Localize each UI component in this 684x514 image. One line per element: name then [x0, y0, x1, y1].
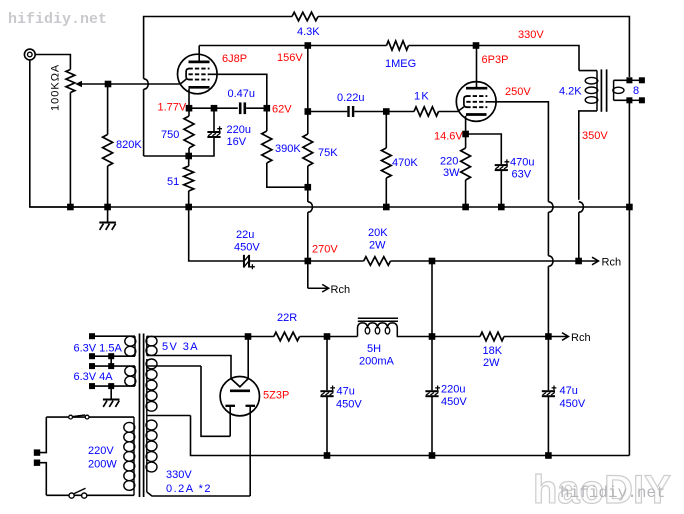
5Z3P filament lead left to 5V winding — [149, 356, 231, 379]
svg-text:100KΩA: 100KΩA — [50, 64, 62, 111]
wire to 0.22u — [308, 111, 348, 113]
wire 1K left — [386, 111, 414, 113]
svg-text:200mA: 200mA — [359, 356, 395, 368]
ground symbol heater — [103, 399, 120, 401]
5Z3P filament — [231, 379, 248, 387]
wire cathode to bypass cap — [466, 134, 502, 164]
wire jack sleeve to ground bus — [30, 60, 108, 207]
wire cathode row — [189, 107, 238, 109]
svg-text:330V: 330V — [166, 469, 192, 481]
junction 51-ground — [185, 204, 192, 211]
svg-text:5V 3A: 5V 3A — [162, 341, 199, 353]
junction 350V-OPT — [575, 258, 582, 265]
speaker terminal 8 bottom — [626, 97, 632, 103]
svg-text:hifidiy.net: hifidiy.net — [8, 11, 107, 28]
svg-text:hifidiy.net: hifidiy.net — [560, 484, 666, 502]
5Z3P filament lead right to B+ — [247, 337, 249, 379]
svg-text:470K: 470K — [392, 157, 418, 169]
svg-text:156V: 156V — [277, 52, 303, 64]
resistor 470K grid leak — [385, 112, 387, 149]
svg-text:1MEG: 1MEG — [385, 58, 416, 70]
speaker terminal 0 top — [626, 77, 632, 83]
svg-text:220: 220 — [440, 156, 458, 168]
svg-text:47u: 47u — [337, 386, 355, 398]
resistor 51 feedback leg — [188, 156, 190, 166]
PT winding 220V primary — [133, 417, 135, 495]
junction plate line — [305, 42, 312, 49]
terminal 6.3V1.5A bottom — [89, 353, 95, 359]
svg-text:450V: 450V — [336, 399, 362, 411]
svg-text:47u: 47u — [560, 385, 578, 397]
svg-text:220V: 220V — [88, 445, 114, 457]
junction 47u screen-ground — [545, 452, 552, 459]
junction heater tie 1 — [108, 353, 114, 359]
svg-text:470u: 470u — [510, 157, 534, 169]
svg-text:4.3K: 4.3K — [297, 26, 320, 38]
6J8P grid dashes top — [189, 68, 210, 70]
terminal 6.3V4A top — [89, 363, 95, 369]
svg-text:Rch: Rch — [571, 332, 591, 344]
power transformer core — [139, 334, 141, 498]
6J8P grid bracket — [186, 69, 189, 80]
svg-text:220u: 220u — [441, 384, 465, 396]
6P3P grid dashes bottom (control) — [466, 106, 487, 108]
resistor 4.3K feedback — [292, 12, 318, 21]
6J8P plate bar — [189, 60, 210, 63]
PT winding 330V HT — [146, 359, 148, 492]
junction 470K-ground — [383, 204, 390, 211]
junction 0.22u line — [305, 108, 312, 115]
svg-text:1K: 1K — [414, 91, 430, 103]
resistor 18K 2W screen dropper — [432, 336, 480, 338]
svg-text:16V: 16V — [227, 136, 247, 148]
svg-text:6.3V 1.5A: 6.3V 1.5A — [74, 343, 123, 355]
svg-text:200W: 200W — [88, 459, 117, 471]
wire 22u to 270V node — [250, 260, 308, 262]
svg-text:250V: 250V — [505, 86, 531, 98]
junction cathode network — [185, 153, 192, 160]
junction ground symbol stem — [104, 204, 111, 211]
wire 22u ground leg — [189, 207, 244, 261]
svg-text:390K: 390K — [275, 143, 301, 155]
terminal AC live — [34, 449, 40, 455]
svg-text:62V: 62V — [272, 104, 292, 116]
AC input wiring — [40, 417, 46, 453]
wire jack to volume pot top — [35, 55, 70, 70]
junction 62V node — [264, 105, 271, 112]
terminal 6.3V4A bottom — [89, 383, 95, 389]
svg-text:2W: 2W — [369, 240, 386, 252]
6P3P plate lead — [476, 46, 478, 89]
svg-text:8: 8 — [633, 85, 639, 97]
6P3P cathode lead — [465, 116, 467, 134]
wire 156V node down — [307, 46, 309, 112]
wire 350V rail to choke node — [431, 261, 433, 337]
svg-text:18K: 18K — [483, 345, 503, 357]
svg-text:22R: 22R — [277, 312, 297, 324]
capacitor 22u 450V decoupling — [243, 255, 245, 268]
wire pot wiper to grid — [82, 83, 180, 85]
junction 270V node — [305, 258, 312, 265]
wire 1K to 6P3P grid — [439, 107, 464, 112]
6P3P grid dashes middle (screen) — [466, 101, 487, 103]
svg-text:51: 51 — [167, 176, 179, 188]
ground symbol amp stage — [99, 222, 116, 224]
wire secondary bottom to ground — [628, 100, 630, 455]
junction secondary-ground-bus — [626, 204, 633, 211]
wire global feedback line — [143, 89, 145, 156]
tube 6J8P — [178, 54, 218, 94]
wire 75K to 270V node — [307, 187, 309, 202]
junction 220u branch — [211, 105, 218, 112]
5Z3P right anode — [246, 405, 256, 407]
6J8P plate lead — [198, 46, 200, 62]
junction rectifier output — [245, 333, 252, 340]
6J8P control grid entry — [180, 79, 186, 84]
capacitor 47u 450V screen filter — [547, 337, 549, 391]
wire 270V to Rch tap — [307, 261, 309, 288]
resistor 750 cathode — [188, 108, 190, 116]
wire 6J8P screen to 62V node — [209, 74, 267, 108]
svg-text:270V: 270V — [312, 244, 338, 256]
wire 0.22u to 1K — [354, 111, 386, 113]
capacitor 0.22u coupling — [347, 106, 349, 117]
6J8P cathode lead — [188, 89, 190, 109]
svg-text:3W: 3W — [443, 167, 460, 179]
resistor 820K grid leak — [107, 84, 109, 135]
svg-text:75K: 75K — [318, 147, 338, 159]
6P3P plate bar — [466, 87, 487, 90]
resistor 1K grid stopper — [414, 107, 439, 116]
wire 350V Rch tap — [579, 260, 599, 262]
junction 470K-1K — [383, 108, 390, 115]
svg-text:Rch: Rch — [331, 284, 351, 296]
junction cathode 14.6V — [462, 131, 469, 138]
PT winding 5V 3A — [146, 336, 148, 355]
junction heater tie 2 — [108, 363, 114, 369]
svg-text:4.2K: 4.2K — [559, 86, 582, 98]
resistor 220 3W cathode — [465, 134, 467, 148]
output transformer core — [600, 69, 602, 111]
6P3P grid bracket — [464, 96, 467, 107]
capacitor 0.47u coupling — [239, 102, 242, 114]
junction 6P3P plate lead — [473, 42, 480, 49]
wire heater tie — [110, 356, 112, 366]
capacitor 47u 450V first filter — [326, 337, 328, 391]
junction 47u-ground — [324, 452, 331, 459]
wire feedback to output terminal — [318, 17, 629, 78]
svg-text:6P3P: 6P3P — [482, 54, 509, 66]
resistor 390K screen dropper — [266, 108, 268, 131]
svg-text:350V: 350V — [582, 130, 608, 142]
svg-text:Rch: Rch — [602, 257, 622, 269]
resistor 20K 2W dropper — [308, 260, 364, 262]
svg-text:14.6V: 14.6V — [434, 131, 463, 143]
svg-text:0.22u: 0.22u — [337, 92, 365, 104]
svg-text:63V: 63V — [512, 169, 532, 181]
svg-text:6.3V 4A: 6.3V 4A — [74, 371, 114, 383]
switch mains bottom — [69, 493, 74, 498]
capacitor 470u 63V cathode bypass — [495, 164, 508, 166]
potentiometer 100K-A volume — [66, 70, 75, 93]
output transformer primary 4.2K — [579, 70, 597, 72]
tube 6P3P — [456, 82, 496, 122]
wire 22R node to choke — [327, 336, 357, 338]
svg-text:5H: 5H — [367, 343, 381, 355]
wire 250V Rch tap — [548, 336, 568, 338]
junction 350V rail left — [429, 258, 436, 265]
svg-text:450V: 450V — [560, 398, 586, 410]
wire 350V rail — [432, 260, 579, 262]
resistor 22R surge — [248, 336, 274, 338]
PT winding 6.3V 4A — [134, 366, 136, 386]
switch mains top — [69, 415, 73, 419]
svg-text:0.47u: 0.47u — [228, 88, 256, 100]
wire choke to 350V node — [397, 336, 432, 338]
svg-text:750: 750 — [161, 129, 179, 141]
svg-text:20K: 20K — [368, 227, 388, 239]
svg-text:330V: 330V — [518, 29, 544, 41]
svg-text:820K: 820K — [116, 139, 142, 151]
svg-text:6J8P: 6J8P — [222, 53, 247, 65]
svg-text:5Z3P: 5Z3P — [263, 390, 289, 402]
6J8P cathode bar — [189, 86, 210, 89]
terminal AC neutral — [34, 460, 40, 466]
svg-text:0.2A *2: 0.2A *2 — [166, 483, 212, 495]
capacitor 220u 450V second filter — [431, 337, 433, 391]
junction 470u-ground — [498, 204, 505, 211]
junction first filter node — [324, 333, 331, 340]
wire 0.47u to 62V node — [246, 107, 267, 109]
svg-text:220u: 220u — [227, 124, 251, 136]
svg-text:450V: 450V — [234, 242, 260, 254]
resistor 75K plate load — [307, 112, 309, 135]
6P3P cathode bar — [466, 113, 487, 116]
wire 1MEG to 6P3P plate — [409, 46, 580, 71]
5Z3P cathode bar — [230, 389, 250, 392]
junction heater ground — [108, 383, 114, 389]
5Z3P left anode — [225, 405, 235, 407]
upper ground bus — [30, 206, 630, 208]
capacitor 220u 16V cathode bypass — [213, 108, 215, 131]
PT winding 6.3V 1.5A — [134, 336, 136, 356]
wire pot bottom to ground bus — [69, 93, 71, 208]
wire 6P3P screen to 250V supply — [487, 102, 548, 202]
choke 5H 200mA — [358, 317, 398, 319]
junction grid-820K — [105, 81, 112, 88]
terminal 6.3V1.5A top — [89, 333, 95, 339]
wire HT top to left anode — [201, 366, 230, 436]
wire plate line 156V — [199, 45, 386, 47]
input jack J1 — [24, 49, 35, 60]
svg-text:2W: 2W — [483, 357, 500, 369]
wire feedback to cathode junction — [144, 155, 189, 157]
wire heater to ground — [110, 386, 112, 399]
junction choke output 350V — [429, 333, 436, 340]
junction 220-ground — [462, 204, 469, 211]
6J8P grid dashes middle (screen) — [189, 73, 210, 75]
junction cathode 1.77V — [186, 105, 193, 112]
junction 220u-ground — [429, 452, 436, 459]
resistor 1MEG plate-to-plate feedback — [387, 41, 409, 50]
svg-text:450V: 450V — [441, 396, 467, 408]
6P3P grid dashes top — [466, 95, 487, 97]
svg-text:1.77V: 1.77V — [158, 102, 187, 114]
output transformer secondary 8 ohm — [613, 80, 615, 100]
junction 250V screen node — [545, 333, 552, 340]
junction pot-ground — [67, 204, 74, 211]
power supply ground bus — [191, 416, 630, 456]
junction 390K-75K — [305, 184, 312, 191]
wire 5V winding to rectifier junction — [149, 336, 248, 338]
tube 5Z3P — [220, 377, 259, 416]
svg-text:22u: 22u — [236, 229, 254, 241]
6J8P grid dashes bottom (control) — [189, 79, 210, 81]
